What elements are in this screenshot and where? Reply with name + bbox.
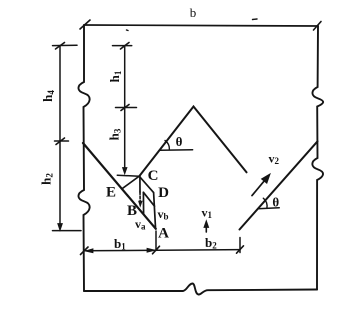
svg-text:v1: v1: [202, 206, 213, 221]
vector v1 arrowhead: [204, 221, 209, 228]
svg-text:h2: h2: [39, 173, 55, 185]
vector v2 shaft along right chute: [252, 176, 269, 196]
svg-text:D: D: [158, 185, 169, 201]
tick left end of b: [80, 20, 90, 29]
vector v1 shaft: [205, 225, 207, 232]
inner vertical segment: [142, 192, 144, 214]
extension line at bottom of left dimension: [53, 230, 82, 232]
arrowhead right end b1: [147, 248, 155, 252]
vertical segment D to A: [154, 193, 156, 228]
tick right end of b: [314, 22, 322, 31]
svg-text:h3: h3: [107, 128, 123, 140]
svg-text:h4: h4: [40, 90, 56, 102]
svg-text:va: va: [135, 217, 146, 232]
svg-text:b2: b2: [205, 235, 217, 251]
speck on b line: [253, 18, 258, 21]
wall right (with two break squiggles): [312, 26, 323, 290]
tick at middle (x=156): [153, 246, 160, 254]
extension line at b2 right end: [239, 238, 241, 253]
oblique tick top of left dimension: [56, 43, 65, 50]
dimension line h1/h3 vertical (x=124.7): [124, 46, 126, 168]
central peak (left edge to C, right edge): [139, 107, 246, 177]
vector v2 arrowhead: [262, 174, 270, 183]
mid tick of middle dimension (peak level): [116, 107, 137, 109]
angle theta right: horizontal reference line: [258, 208, 279, 209]
dimension line b (top edge of box): [84, 25, 318, 26]
right slope of valley: [240, 141, 318, 229]
arrowhead bottom of middle dimension: [123, 168, 128, 175]
angle theta left: arc: [165, 141, 169, 150]
arrowhead left end b1: [85, 249, 93, 253]
oblique tick mid middle dimension: [121, 105, 129, 111]
angle theta left: horizontal reference line: [160, 149, 193, 151]
extension line from A down: [155, 231, 157, 250]
inner diagonal segment: [143, 192, 154, 206]
oblique tick top of middle dimension: [121, 43, 130, 50]
oblique tick mid left dimension: [56, 138, 65, 145]
svg-text:E: E: [106, 185, 116, 201]
svg-text:vb: vb: [158, 207, 169, 222]
svg-text:b1: b1: [114, 236, 126, 252]
speck below b line: [127, 29, 129, 32]
arrowhead bottom of left dimension: [58, 224, 63, 231]
dimension line b1-b2 (bottom): [84, 250, 240, 251]
dimension line h4/h2 vertical (x=60): [59, 46, 61, 226]
svg-text:C: C: [148, 168, 159, 184]
svg-text:θ: θ: [176, 134, 183, 149]
tick at right end b2: [237, 246, 244, 253]
svg-text:b: b: [190, 5, 197, 20]
vertical segment C to B: [139, 176, 141, 192]
top cap of left dimension: [53, 44, 78, 46]
extension line from C to middle dimension: [117, 175, 139, 176]
segment E to C: [123, 176, 140, 188]
arrowhead at B end of vertical: [139, 201, 143, 207]
wall left (with two break squiggles): [78, 25, 89, 291]
main left slope (wall to point A): [83, 143, 156, 229]
tick at wall end of b1: [81, 247, 89, 255]
svg-text:v2: v2: [269, 152, 280, 167]
bottom line of box (with break bump): [84, 284, 317, 295]
angle theta right: arc: [263, 198, 267, 208]
svg-text:A: A: [158, 226, 169, 242]
svg-text:h1: h1: [107, 70, 123, 82]
mid tick of left dimension (slope start level): [55, 140, 69, 142]
svg-text:θ: θ: [272, 195, 279, 210]
segment C to D: [139, 176, 153, 192]
top cap of middle dimension: [113, 45, 132, 47]
